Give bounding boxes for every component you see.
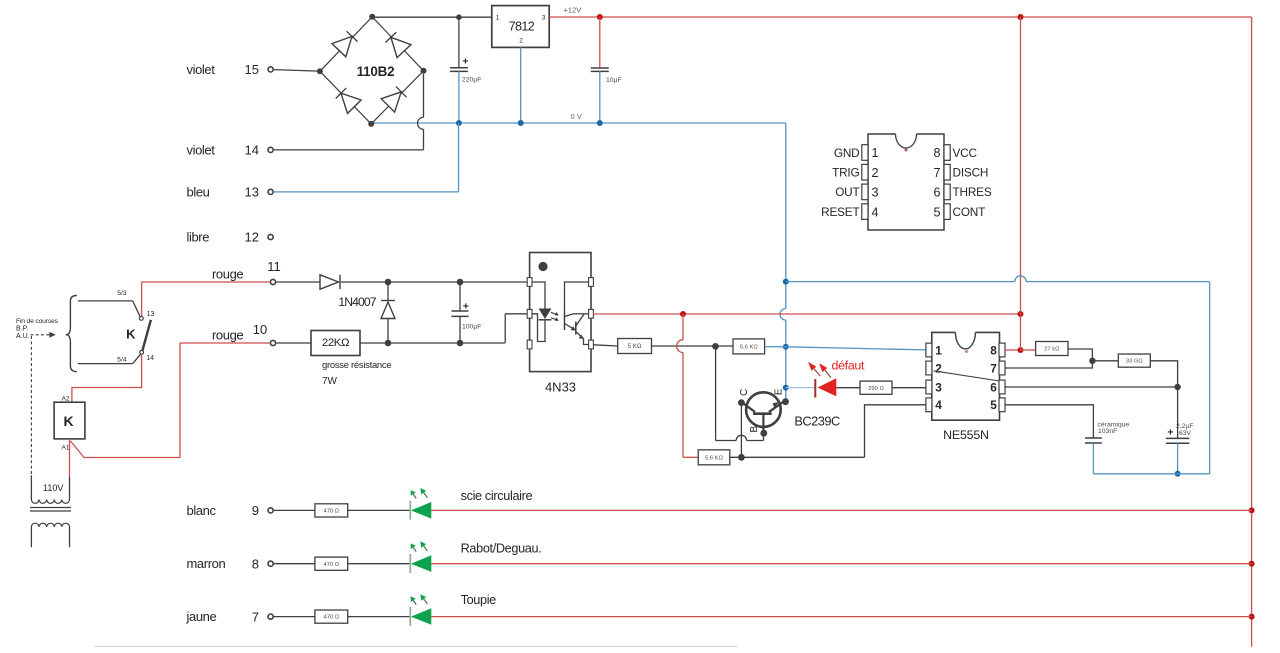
svg-text:4N33: 4N33 [545,380,576,395]
svg-text:défaut: défaut [832,359,866,373]
svg-text:BC239C: BC239C [794,414,840,429]
svg-text:Fin de courses: Fin de courses [16,318,59,325]
svg-text:470 Ω: 470 Ω [323,508,339,514]
svg-text:8: 8 [933,146,940,160]
svg-text:jaune: jaune [186,609,217,624]
svg-text:Toupie: Toupie [461,593,497,607]
svg-text:14: 14 [245,142,259,157]
svg-text:13: 13 [147,311,155,318]
svg-text:15: 15 [245,62,259,77]
svg-text:3: 3 [935,380,942,394]
svg-text:K: K [63,413,73,429]
svg-text:+: + [462,55,468,67]
svg-text:7: 7 [990,361,997,375]
svg-text:103nF: 103nF [1098,428,1117,435]
svg-text:12: 12 [245,230,259,245]
svg-text:CONT: CONT [953,205,986,219]
svg-text:290 Ω: 290 Ω [868,386,884,392]
svg-text:7W: 7W [322,376,338,387]
svg-text:OUT: OUT [835,185,859,199]
svg-text:110B2: 110B2 [357,64,395,79]
svg-text:1N4007: 1N4007 [338,295,376,309]
svg-text:violet: violet [187,62,216,77]
svg-text:10: 10 [253,322,267,337]
svg-text:33 GΩ: 33 GΩ [1126,359,1144,365]
svg-text:DISCH: DISCH [953,166,989,180]
svg-text:1: 1 [496,15,500,22]
svg-text:3: 3 [872,186,879,200]
svg-text:3: 3 [542,15,546,22]
svg-text:A1: A1 [62,444,70,451]
svg-text:2: 2 [872,166,879,180]
svg-text:5 KΩ: 5 KΩ [628,343,642,350]
svg-text:470 Ω: 470 Ω [323,562,339,568]
svg-text:5/4: 5/4 [117,356,127,363]
svg-text:5: 5 [990,398,997,412]
svg-text:B.P.: B.P. [16,325,28,332]
svg-text:4: 4 [935,398,942,412]
svg-text:470 Ω: 470 Ω [323,615,339,621]
svg-text:blanc: blanc [187,503,217,518]
svg-text:GND: GND [834,146,860,160]
svg-text:E: E [773,388,784,395]
svg-text:27 kΩ: 27 kΩ [1044,347,1060,353]
svg-text:rouge: rouge [212,328,243,343]
svg-text:2: 2 [519,38,523,45]
svg-text:11: 11 [267,259,281,274]
svg-text:C: C [739,389,750,396]
svg-text:9: 9 [252,503,259,518]
svg-text:rouge: rouge [212,267,243,282]
svg-text:1: 1 [935,343,942,357]
svg-text:6: 6 [933,186,940,200]
svg-text:Rabot/Deguau.: Rabot/Deguau. [461,541,542,555]
svg-text:bleu: bleu [187,184,210,199]
svg-text:8: 8 [252,557,259,572]
svg-text:5/3: 5/3 [117,290,127,297]
svg-text:K: K [126,327,136,342]
svg-text:RESET: RESET [821,205,859,219]
svg-text:+: + [1167,427,1173,439]
svg-text:6: 6 [990,380,997,394]
svg-text:TRIG: TRIG [832,166,859,180]
svg-text:scie circulaire: scie circulaire [461,489,533,503]
svg-text:VCC: VCC [953,146,978,160]
svg-text:63V: 63V [1179,430,1192,437]
svg-text:13: 13 [245,184,259,199]
svg-text:5,6 KΩ: 5,6 KΩ [740,344,759,350]
svg-text:7: 7 [933,166,940,180]
svg-text:7812: 7812 [509,19,535,33]
svg-text:5,6 KΩ: 5,6 KΩ [705,455,724,461]
svg-text:5: 5 [933,205,940,219]
svg-text:14: 14 [146,355,154,362]
svg-text:+12V: +12V [564,6,582,15]
svg-text:2: 2 [935,361,942,375]
svg-text:10µF: 10µF [606,77,622,84]
svg-text:violet: violet [187,142,216,157]
svg-text:1: 1 [872,146,879,160]
svg-text:7: 7 [252,609,259,624]
svg-text:100µF: 100µF [462,324,481,331]
svg-text:2,2µF: 2,2µF [1176,423,1194,430]
svg-text:220µF: 220µF [462,77,481,84]
svg-text:0 V: 0 V [571,112,582,121]
svg-text:22KΩ: 22KΩ [322,337,350,349]
svg-text:THRES: THRES [953,185,992,199]
svg-text:grosse résistance: grosse résistance [322,360,391,371]
svg-text:8: 8 [990,343,997,357]
svg-text:B: B [749,425,760,432]
svg-text:libre: libre [187,230,210,245]
svg-text:A.U.: A.U. [16,333,30,340]
svg-text:4: 4 [872,205,879,219]
svg-text:110V: 110V [43,483,63,493]
svg-text:NE555N: NE555N [943,428,989,442]
svg-text:+: + [463,300,469,312]
svg-text:A2: A2 [62,395,70,402]
svg-text:marron: marron [187,556,226,571]
